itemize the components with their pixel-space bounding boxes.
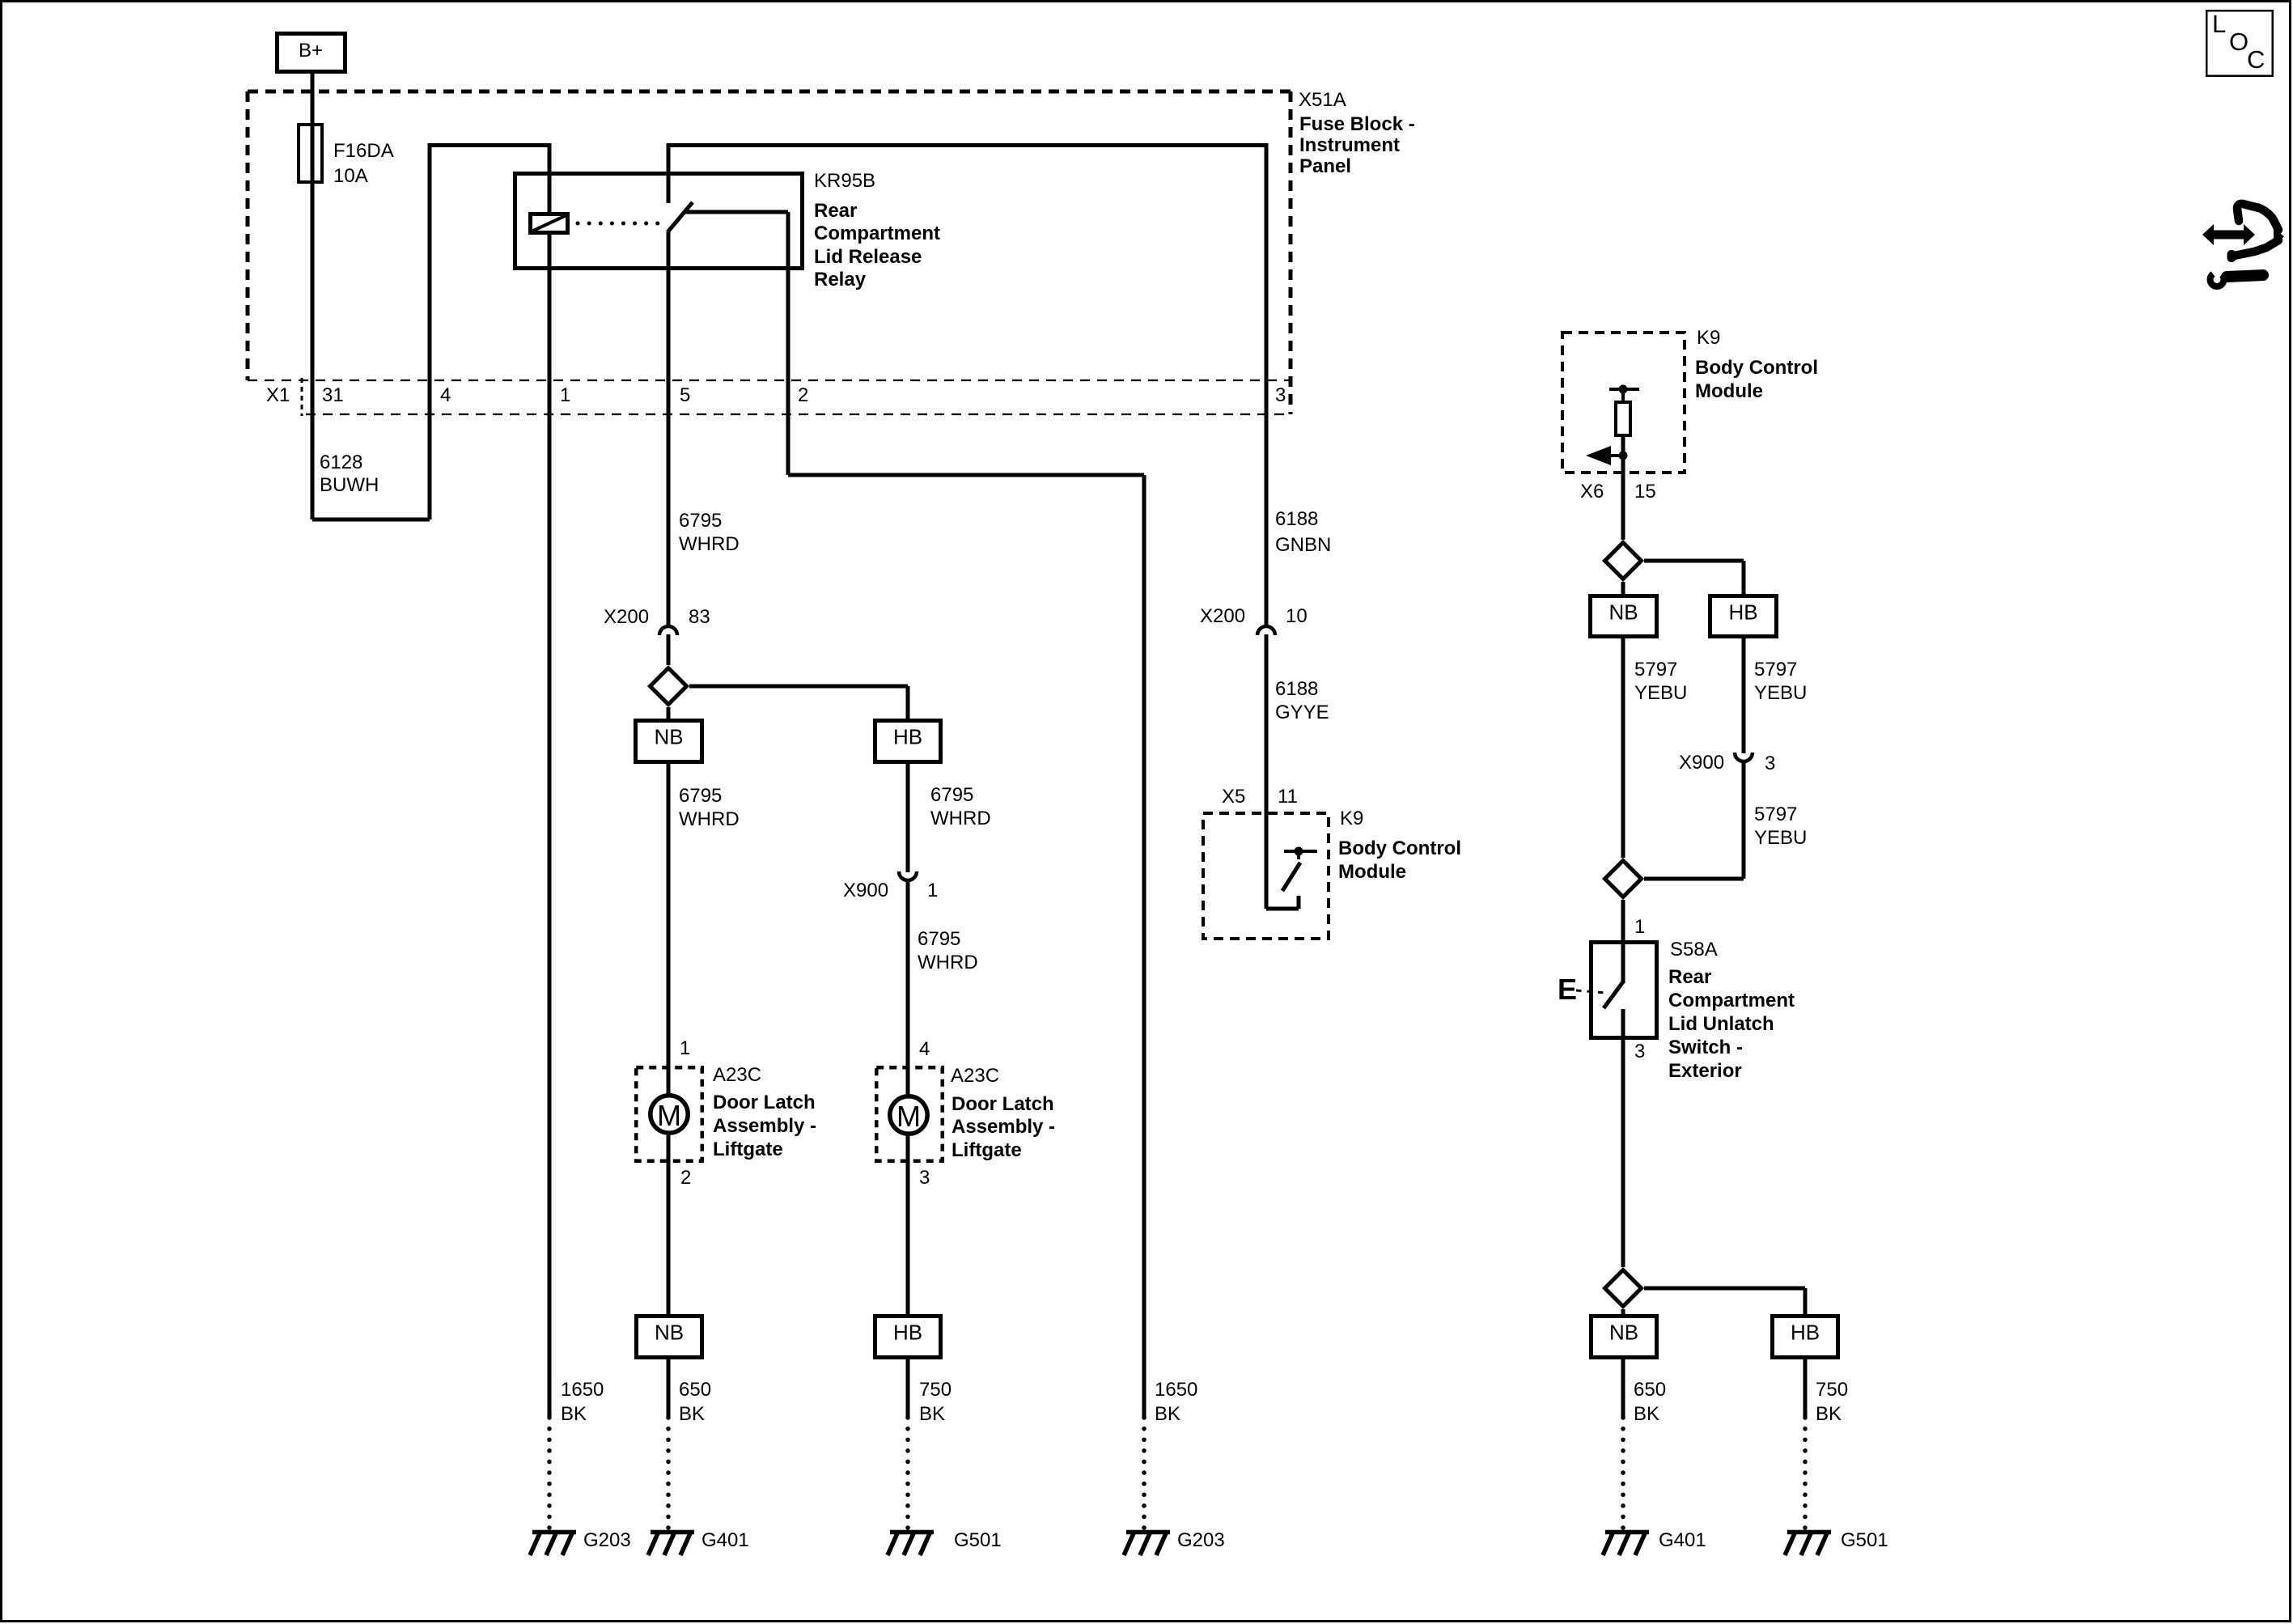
door latch assembly A23C left dashed box	[636, 1067, 702, 1161]
svg-text:YEBU: YEBU	[1634, 682, 1687, 704]
connector interface band X1	[248, 379, 1291, 381]
svg-text:6795: 6795	[679, 785, 722, 807]
svg-text:3: 3	[919, 1167, 930, 1189]
BCM internal resistor	[1616, 402, 1630, 435]
wire 6795 WHRD NB to door latch 1	[667, 764, 671, 1094]
svg-text:BK: BK	[1155, 1403, 1180, 1425]
svg-text:5797: 5797	[1754, 804, 1797, 825]
svg-text:G401: G401	[701, 1529, 749, 1551]
svg-text:BUWH: BUWH	[320, 474, 379, 496]
wire motor to NB bottom	[667, 1135, 671, 1314]
body control module K9 mid dashed box	[1203, 813, 1329, 939]
switch S58A box	[1592, 943, 1657, 1038]
svg-text:X51A: X51A	[1299, 89, 1346, 111]
svg-text:5797: 5797	[1634, 659, 1677, 681]
wire BCM X6-15 down	[1621, 474, 1625, 540]
svg-text:2: 2	[798, 384, 808, 406]
svg-text:31: 31	[322, 384, 344, 406]
svg-text:X900: X900	[843, 880, 888, 901]
svg-text:BK: BK	[1816, 1403, 1842, 1425]
svg-text:15: 15	[1634, 481, 1656, 502]
ground G501 left	[888, 1533, 934, 1556]
svg-text:HB: HB	[893, 725, 922, 749]
S58A blade	[1604, 981, 1624, 1008]
svg-text:HB: HB	[893, 1321, 922, 1345]
svg-text:G203: G203	[1177, 1529, 1225, 1551]
svg-text:2: 2	[680, 1167, 691, 1189]
wire relay pin 2 (1650 BK right)	[786, 268, 790, 475]
wire dotted to G203 right	[1142, 1418, 1146, 1529]
svg-text:Assembly -: Assembly -	[713, 1115, 816, 1137]
branch to HB right	[1644, 559, 1744, 563]
wire B+ to fuse	[311, 72, 315, 123]
svg-text:Rear: Rear	[814, 200, 857, 222]
wire 6188 GYYE	[1265, 634, 1269, 909]
svg-text:Lid Release: Lid Release	[814, 246, 922, 268]
svg-text:B+: B+	[299, 40, 323, 61]
branch to HB right bottom	[1644, 1287, 1805, 1291]
ground G501 right	[1785, 1533, 1831, 1556]
door latch assembly A23C right dashed box	[876, 1067, 943, 1161]
wire motor right to HB bottom	[906, 1135, 910, 1314]
B+ power feed box	[278, 34, 345, 72]
svg-text:X200: X200	[604, 606, 649, 628]
svg-text:K9: K9	[1697, 327, 1720, 349]
svg-text:F16DA: F16DA	[333, 140, 394, 162]
svg-text:A23C: A23C	[713, 1064, 761, 1086]
svg-text:3: 3	[1275, 384, 1286, 406]
svg-text:A23C: A23C	[951, 1065, 999, 1087]
svg-text:4: 4	[919, 1038, 930, 1060]
wire 5797 YEBU below X900	[1742, 762, 1746, 879]
NB box bottom left	[637, 1317, 702, 1358]
BCM switch blade	[1282, 863, 1300, 891]
svg-text:WHRD: WHRD	[918, 952, 978, 973]
svg-text:G401: G401	[1659, 1529, 1706, 1551]
svg-text:4: 4	[440, 384, 451, 406]
svg-text:M: M	[657, 1099, 681, 1132]
svg-text:BK: BK	[919, 1403, 945, 1425]
splice diamond	[651, 668, 687, 705]
svg-text:10: 10	[1286, 605, 1308, 627]
svg-text:O: O	[2229, 28, 2248, 56]
svg-text:5: 5	[680, 384, 690, 406]
relay coil	[531, 214, 568, 233]
wire 6795 WHRD pin 5 down	[667, 232, 671, 627]
svg-text:M: M	[896, 1100, 921, 1133]
splice diamond right bottom	[1605, 1270, 1642, 1307]
BCM output junction dot	[1619, 452, 1628, 460]
svg-text:1: 1	[560, 384, 570, 406]
svg-text:10A: 10A	[333, 165, 368, 187]
HB box	[875, 721, 941, 762]
svg-text:1: 1	[927, 880, 938, 901]
wire 650 BK to G401	[667, 1359, 671, 1418]
NB box right	[1591, 596, 1657, 637]
svg-text:Panel: Panel	[1299, 155, 1351, 177]
svg-text:C: C	[2247, 45, 2265, 74]
svg-text:Instrument: Instrument	[1299, 134, 1400, 156]
connector X900 pin 1	[899, 871, 917, 880]
wire 6795 WHRD HB down	[906, 764, 910, 872]
relay switch input from rail	[667, 143, 671, 203]
svg-text:K9: K9	[1340, 808, 1363, 829]
svg-text:YEBU: YEBU	[1754, 827, 1807, 849]
svg-text:1: 1	[1634, 916, 1645, 938]
svg-text:750: 750	[919, 1379, 952, 1401]
svg-text:750: 750	[1816, 1379, 1848, 1401]
svg-text:WHRD: WHRD	[930, 808, 991, 829]
svg-text:GYYE: GYYE	[1275, 702, 1329, 723]
svg-text:Fuse Block -: Fuse Block -	[1299, 113, 1415, 135]
svg-text:Compartment: Compartment	[814, 223, 940, 244]
svg-text:650: 650	[1634, 1379, 1666, 1401]
wire rail left to relay coil	[430, 143, 550, 147]
svg-text:BK: BK	[561, 1403, 587, 1425]
HB box bottom left group	[875, 1317, 941, 1358]
LOC legend box	[2206, 11, 2273, 76]
svg-text:Door Latch: Door Latch	[713, 1092, 816, 1113]
svg-text:YEBU: YEBU	[1754, 682, 1807, 704]
ground G401 left	[648, 1533, 694, 1556]
svg-text:Assembly -: Assembly -	[952, 1116, 1055, 1138]
wire 6128 BUWH fuse output loop	[311, 184, 315, 519]
svg-text:HB: HB	[1791, 1321, 1820, 1345]
svg-text:X6: X6	[1580, 481, 1604, 502]
motor M left	[651, 1096, 688, 1133]
svg-text:6128: 6128	[320, 452, 362, 473]
svg-text:Exterior: Exterior	[1668, 1060, 1742, 1082]
svg-text:Compartment: Compartment	[1668, 990, 1795, 1011]
body control module K9 right dashed box	[1562, 333, 1685, 473]
wire splice to NB	[667, 707, 671, 719]
svg-text:Rear: Rear	[1668, 966, 1711, 988]
wire S58A to splice	[1621, 1040, 1625, 1267]
relay coil wire from rail	[548, 143, 552, 212]
svg-text:1: 1	[680, 1037, 690, 1059]
NB box right bottom	[1592, 1317, 1657, 1358]
svg-text:83: 83	[689, 606, 710, 628]
svg-text:L: L	[2212, 10, 2226, 38]
svg-text:1650: 1650	[1155, 1379, 1197, 1401]
svg-text:Body Control: Body Control	[1338, 837, 1461, 859]
ground G401 right	[1603, 1533, 1649, 1556]
relay switch output	[685, 210, 788, 214]
svg-text:11: 11	[1278, 786, 1298, 808]
svg-text:Lid Unlatch: Lid Unlatch	[1668, 1013, 1774, 1035]
splice diamond right mid	[1644, 877, 1744, 881]
svg-text:3: 3	[1634, 1041, 1645, 1062]
relay switch blade	[668, 202, 693, 232]
fuse F16DA 10A	[311, 123, 315, 184]
svg-text:GNBN: GNBN	[1275, 534, 1331, 556]
svg-text:WHRD: WHRD	[679, 808, 740, 830]
wire 5797 YEBU left leg	[1621, 638, 1625, 858]
svg-text:6795: 6795	[930, 784, 973, 806]
BCM driver bar with dot	[1284, 850, 1317, 853]
svg-text:6795: 6795	[679, 510, 722, 532]
wire rail right to pin 3	[668, 143, 1266, 147]
svg-text:NB: NB	[1609, 1321, 1638, 1345]
connector X200 pin 10	[1257, 626, 1275, 635]
svg-text:3: 3	[1765, 753, 1775, 774]
svg-text:BK: BK	[679, 1403, 705, 1425]
svg-text:G501: G501	[1841, 1529, 1888, 1551]
svg-text:X5: X5	[1222, 786, 1245, 808]
connector X900 pin 3	[1735, 753, 1753, 761]
svg-text:Body Control: Body Control	[1695, 357, 1818, 379]
wire 650 BK right to G401	[1621, 1359, 1625, 1418]
svg-text:G203: G203	[583, 1529, 631, 1551]
motor M right	[890, 1096, 927, 1134]
svg-text:WHRD: WHRD	[679, 533, 740, 555]
wire relay coil pin 1 down (1650 BK)	[548, 235, 552, 1418]
BCM output arrow	[1611, 454, 1623, 457]
wire 6188 GNBN pin 3 down	[1265, 143, 1269, 627]
svg-text:Door Latch: Door Latch	[952, 1093, 1054, 1115]
svg-text:5797: 5797	[1754, 659, 1797, 681]
svg-text:X200: X200	[1200, 605, 1245, 627]
NB box	[636, 721, 702, 762]
splice right branch to HB	[689, 685, 908, 689]
svg-text:S58A: S58A	[1670, 939, 1718, 960]
fuse block X51A dashed outline	[248, 90, 1292, 94]
HB box right bottom	[1773, 1317, 1838, 1358]
wire to splice	[667, 634, 671, 665]
svg-text:Liftgate: Liftgate	[713, 1138, 783, 1160]
svg-text:G501: G501	[954, 1529, 1002, 1551]
svg-text:X1: X1	[266, 384, 290, 406]
service info arrows and wrench icon	[2202, 224, 2255, 245]
wire 750 BK to G501	[906, 1359, 910, 1418]
svg-text:E: E	[1558, 973, 1577, 1006]
svg-text:BK: BK	[1634, 1403, 1659, 1425]
svg-text:HB: HB	[1728, 600, 1757, 625]
svg-text:X900: X900	[1679, 752, 1724, 774]
relay coil-switch dotted link	[578, 222, 663, 226]
svg-text:NB: NB	[1608, 600, 1638, 625]
S58A top contact	[1621, 940, 1625, 982]
connector X200 pin 83	[659, 626, 677, 635]
svg-text:Module: Module	[1695, 380, 1763, 402]
svg-text:Liftgate: Liftgate	[952, 1139, 1022, 1161]
svg-text:NB: NB	[654, 725, 683, 749]
svg-text:6188: 6188	[1275, 508, 1318, 530]
svg-text:6795: 6795	[918, 928, 960, 950]
splice diamond right top	[1605, 543, 1642, 579]
S58A lower contact	[1621, 1009, 1625, 1040]
ground G203	[530, 1533, 576, 1556]
wire 750 BK right to G501	[1803, 1359, 1808, 1418]
BCM internal T-bar with dot	[1609, 388, 1639, 391]
svg-text:NB: NB	[655, 1321, 684, 1345]
HB box right	[1710, 596, 1777, 637]
svg-text:1650: 1650	[561, 1379, 604, 1401]
wire 6795 WHRD to door latch 4	[906, 881, 910, 1094]
svg-text:6188: 6188	[1275, 678, 1318, 700]
svg-text:Relay: Relay	[814, 269, 867, 290]
svg-text:650: 650	[679, 1379, 711, 1401]
wire to NB right bottom	[1621, 1309, 1625, 1314]
svg-text:Module: Module	[1338, 861, 1406, 883]
BCM low-side driver hook	[1266, 907, 1299, 911]
wire 5797 YEBU right leg	[1742, 638, 1746, 753]
wire dotted to G203	[547, 1418, 552, 1529]
E dashed link	[1576, 990, 1605, 993]
ground G203 right	[1124, 1533, 1170, 1556]
svg-text:KR95B: KR95B	[814, 170, 875, 192]
wire to NB right	[1621, 582, 1625, 594]
svg-text:Switch -: Switch -	[1668, 1037, 1743, 1058]
wire to S58A	[1621, 900, 1625, 940]
BCM internal wire	[1621, 389, 1625, 401]
relay KR95B box	[515, 174, 803, 269]
